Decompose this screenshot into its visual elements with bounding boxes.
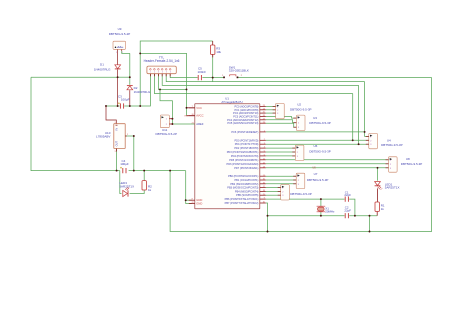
svg-text:15: 15	[263, 179, 265, 181]
svg-text:OUT: OUT	[115, 140, 119, 146]
wire TTL pin3 VCC line	[158, 74, 186, 90]
svg-text:IN: IN	[115, 128, 119, 131]
svg-text:DBT50G-9.5-3P: DBT50G-9.5-3P	[290, 192, 312, 196]
svg-text:28: 28	[263, 122, 265, 124]
wire U10 output	[116, 149, 118, 171]
wire U9 pin1 to D1	[117, 49, 119, 64]
svg-text:3: 3	[158, 72, 159, 74]
svg-text:U8: U8	[406, 157, 410, 161]
wire PD2 to U6	[266, 147, 296, 149]
wire VCC drop	[186, 89, 188, 115]
wire D1 row to D2 riser	[118, 76, 130, 78]
svg-text:U3: U3	[313, 116, 317, 120]
wire left frame vertical	[31, 77, 112, 170]
IC U1 left-side pins	[184, 106, 204, 206]
svg-text:DBT50G-9.5-3P: DBT50G-9.5-3P	[401, 162, 423, 166]
svg-text:26: 26	[263, 115, 265, 117]
wire PC2 to U2	[266, 112, 276, 114]
LED LED3 5AR25T1X	[123, 187, 129, 197]
wire PB4 to U5	[266, 190, 281, 192]
svg-text:DBT50G-9.5-3P: DBT50G-9.5-3P	[309, 149, 331, 153]
switch SW1 320-02E11BLK	[222, 75, 243, 78]
wire PC4 to U3	[266, 120, 297, 123]
svg-text:17: 17	[263, 186, 265, 188]
svg-text:PB5 (SCK/PCINT5): PB5 (SCK/PCINT5)	[236, 193, 258, 197]
svg-text:19: 19	[263, 194, 265, 196]
diode D1 1N4007RLG	[115, 65, 121, 69]
svg-text:DBT50G-9.5-3P: DBT50G-9.5-3P	[309, 121, 331, 125]
svg-text:5AR25T1X: 5AR25T1X	[385, 186, 400, 190]
wire PD0 row	[266, 139, 369, 141]
wire VCC pin	[187, 107, 195, 109]
connector U5 DBT50G-9.5-3P	[278, 185, 290, 200]
svg-text:1k: 1k	[381, 207, 385, 211]
wire R2 top	[143, 171, 145, 181]
svg-text:PD7 (PCINT23/AIN1): PD7 (PCINT23/AIN1)	[234, 166, 258, 170]
svg-text:6: 6	[264, 155, 265, 157]
svg-text:PB0 (PCINT0/CLKO/ICP1): PB0 (PCINT0/CLKO/ICP1)	[228, 174, 258, 178]
wire D2 riser	[129, 53, 131, 84]
svg-text:8: 8	[192, 199, 193, 201]
svg-text:23: 23	[263, 105, 265, 107]
svg-text:100µF: 100µF	[121, 98, 130, 102]
svg-text:PB6 (PCINT6/XTAL1/TOSC1): PB6 (PCINT6/XTAL1/TOSC1)	[225, 197, 259, 201]
svg-text:16: 16	[263, 182, 265, 184]
resistor R2 1k	[142, 181, 146, 190]
svg-text:U9: U9	[118, 27, 122, 31]
svg-text:20MHz: 20MHz	[325, 210, 335, 214]
svg-text:PC4 (ADC4/SDA/PCINT12): PC4 (ADC4/SDA/PCINT12)	[227, 118, 258, 122]
wire PD1 vertical	[358, 85, 360, 144]
connector U7 DBT50G-9.5-3P	[293, 173, 305, 188]
svg-text:2: 2	[154, 72, 155, 74]
wire PC0 to U2	[266, 105, 276, 107]
svg-text:4: 4	[162, 72, 163, 74]
connector U11 DBT50G-9.5-2P	[160, 115, 172, 128]
svg-text:PB4 (MISO/PCINT4): PB4 (MISO/PCINT4)	[235, 189, 259, 193]
svg-text:2: 2	[241, 75, 243, 77]
svg-text:DBT50G-9.5-2P: DBT50G-9.5-2P	[155, 132, 177, 136]
svg-text:PB2 (SS/OC1B/PCINT2): PB2 (SS/OC1B/PCINT2)	[230, 182, 258, 186]
svg-text:D1: D1	[100, 62, 104, 66]
svg-text:U6: U6	[313, 144, 317, 148]
svg-text:ATmega328-PU: ATmega328-PU	[221, 100, 242, 104]
wire VCC top line	[140, 41, 213, 106]
svg-text:1k: 1k	[148, 188, 152, 192]
svg-text:100nF: 100nF	[198, 70, 207, 74]
svg-text:PC6 (PCINT14/RESET): PC6 (PCINT14/RESET)	[231, 130, 258, 134]
svg-text:14: 14	[263, 175, 265, 177]
resistor R1 1k	[375, 202, 379, 211]
svg-text:1: 1	[115, 122, 116, 124]
wire C3 line right	[124, 74, 150, 106]
wire PC3 to U3	[266, 117, 297, 119]
svg-text:6: 6	[170, 72, 171, 74]
connector U3 DBT50G-9.5-3P	[293, 115, 305, 130]
svg-text:PB3 (MOSI/OC2A/PCINT3): PB3 (MOSI/OC2A/PCINT3)	[227, 186, 258, 190]
svg-text:PC2 (ADC2/PCINT10): PC2 (ADC2/PCINT10)	[233, 111, 258, 115]
svg-text:U5: U5	[312, 166, 316, 170]
IC U1 right-side pins	[225, 104, 266, 205]
svg-text:Header-Female-2.54_1x6: Header-Female-2.54_1x6	[144, 59, 180, 63]
wire TTL pin6 DTR line	[170, 74, 197, 78]
connector U6 DBT50G-9.5-3P	[292, 145, 304, 160]
wire U9 pin2	[121, 49, 123, 51]
wire C1 right drop	[349, 199, 355, 216]
wire TTL pin2 line	[154, 74, 352, 94]
wire PB1 to U7	[266, 179, 296, 181]
wire C4 right rail	[129, 170, 186, 172]
svg-text:PD1 (PCINT17/TXD): PD1 (PCINT17/TXD)	[235, 142, 259, 146]
svg-text:10: 10	[263, 202, 265, 204]
svg-text:PC0 (ADC0/PCINT8): PC0 (ADC0/PCINT8)	[234, 104, 258, 108]
wire PC5 to U3	[266, 123, 297, 127]
LED LED1 5AR25T1X	[375, 182, 383, 190]
svg-text:L7805ABV: L7805ABV	[96, 134, 110, 138]
svg-text:20: 20	[192, 114, 194, 116]
svg-text:2: 2	[264, 139, 265, 141]
svg-text:1: 1	[116, 52, 117, 54]
wire PD5 to U8	[266, 159, 389, 161]
svg-text:PB7 (PCINT7/XTAL2/TOSC2): PB7 (PCINT7/XTAL2/TOSC2)	[225, 201, 259, 205]
wire bottom ground rail	[170, 78, 431, 232]
capacitor C5 100nF	[198, 75, 201, 80]
wire PB5 to U5	[266, 194, 281, 196]
svg-text:U7: U7	[314, 172, 318, 176]
wire LED3 to R2	[130, 190, 145, 194]
svg-text:GND: GND	[196, 202, 202, 206]
capacitor C1 22pF	[345, 197, 348, 202]
svg-text:1: 1	[150, 72, 151, 74]
svg-text:7: 7	[192, 106, 193, 108]
svg-text:11: 11	[263, 158, 265, 160]
capacitor C4 100uF	[120, 167, 126, 173]
wire PC1 to U2	[266, 109, 276, 111]
svg-text:VCC: VCC	[196, 106, 202, 110]
svg-text:1N4007RLG: 1N4007RLG	[134, 90, 151, 94]
wire AVCC pin	[187, 115, 195, 117]
svg-text:PD2 (PCINT18/INT0): PD2 (PCINT18/INT0)	[234, 146, 258, 150]
connector U8 DBT50G-9.5-3P	[386, 157, 398, 172]
svg-text:21: 21	[192, 122, 194, 124]
wire R1 bottom	[376, 212, 378, 216]
svg-text:PD5 (PCINT21/OC0B/T1): PD5 (PCINT21/OC0B/T1)	[229, 158, 258, 162]
wire U11 feed	[160, 89, 172, 124]
wire U10 input jog	[106, 106, 116, 124]
wire left frame	[31, 76, 118, 78]
wire PD6 to U8	[266, 163, 389, 165]
svg-text:9: 9	[264, 198, 265, 200]
svg-text:24: 24	[263, 108, 265, 110]
wire XTAL1 line	[266, 198, 345, 200]
svg-text:5: 5	[166, 72, 167, 74]
svg-text:1N4007RLG: 1N4007RLG	[94, 67, 111, 71]
svg-text:2: 2	[122, 52, 123, 54]
svg-text:22pF: 22pF	[344, 208, 351, 212]
wire C2 right to R1	[349, 215, 377, 217]
resistor R3 10k	[211, 41, 215, 57]
wire crystal riser top	[320, 199, 322, 206]
wire GND drop right	[369, 216, 371, 232]
svg-text:10k: 10k	[216, 50, 221, 54]
connector U2 DBT50G-9.5-3P	[273, 103, 285, 118]
wire GND pin 8	[186, 199, 192, 201]
svg-text:4: 4	[264, 147, 265, 149]
wire PD0 vertical	[352, 94, 354, 141]
wire XTAL2 line	[268, 215, 345, 217]
svg-text:PC5 (ADC5/SCL/PCINT13): PC5 (ADC5/SCL/PCINT13)	[227, 121, 258, 125]
wire XTAL2 drop	[266, 203, 268, 232]
wire crystal riser bottom	[320, 212, 322, 216]
svg-text:320-02E11BLK: 320-02E11BLK	[229, 69, 249, 73]
svg-text:PD4 (PCINT20/XCK/T0): PD4 (PCINT20/XCK/T0)	[231, 154, 259, 158]
svg-text:DBT50G-9.5-3P: DBT50G-9.5-3P	[381, 143, 403, 147]
svg-text:22pF: 22pF	[344, 193, 351, 197]
svg-text:VCC: VCC	[184, 116, 189, 118]
wire D1 to C3 line	[117, 70, 119, 107]
connector TTL Header-Female-2.54_1x6	[147, 66, 176, 76]
svg-text:25: 25	[263, 112, 265, 114]
svg-text:U2: U2	[297, 103, 301, 107]
svg-text:5: 5	[264, 151, 265, 153]
svg-text:DBT50G-9.5-2P: DBT50G-9.5-2P	[109, 32, 131, 36]
crystal X1 20MHz	[317, 206, 326, 212]
wire LED3 branch	[120, 171, 122, 194]
svg-text:PD3 (PCINT19/OC2B/INT1): PD3 (PCINT19/OC2B/INT1)	[227, 150, 259, 154]
svg-text:PB1 (OC1A/PCINT1): PB1 (OC1A/PCINT1)	[234, 178, 258, 182]
wire reset node	[202, 77, 223, 79]
wire R3 bottom	[212, 54, 214, 77]
wire PB3 to U5	[266, 187, 281, 189]
wire PD7 to U8	[266, 167, 389, 169]
wire PB0 to U7	[266, 175, 296, 177]
wire U10 ground	[125, 136, 134, 171]
wire LED1 to R1	[377, 188, 379, 202]
svg-text:3: 3	[115, 151, 116, 153]
svg-text:5AR25T1X: 5AR25T1X	[119, 184, 134, 188]
capacitor C3 100uF	[118, 102, 124, 108]
wire PC6 reset row	[266, 131, 365, 133]
svg-text:U4: U4	[387, 139, 391, 143]
svg-text:PD0 (PCINT16/RXD): PD0 (PCINT16/RXD)	[234, 138, 258, 142]
svg-text:18: 18	[263, 190, 265, 192]
wire RESET vertical to U4 pin1	[365, 82, 369, 137]
svg-text:DBT50G-9.5-3P: DBT50G-9.5-3P	[307, 178, 329, 182]
wire PB2 to U7	[266, 183, 296, 185]
wire TTL pin5 line	[166, 74, 364, 82]
svg-text:3: 3	[264, 143, 265, 145]
svg-text:27: 27	[263, 118, 265, 120]
wire 5V rail	[112, 170, 120, 172]
capacitor C2 22pF	[345, 213, 348, 218]
svg-text:1: 1	[264, 131, 265, 133]
connector U4 DBT50G-9.5-3P	[366, 133, 378, 148]
wire PD4 to U6	[266, 155, 296, 157]
wire VCC distribution	[140, 53, 186, 89]
svg-text:AVCC: AVCC	[196, 114, 203, 118]
svg-text:AREF: AREF	[196, 122, 204, 126]
wire C3 line left	[106, 105, 120, 107]
IC U1 ATmega328-PU	[195, 104, 260, 209]
regulator U10 L7805ABV	[114, 122, 128, 153]
svg-text:100µF: 100µF	[120, 162, 129, 166]
svg-text:PD6 (PCINT22/OC0A/AIN0): PD6 (PCINT22/OC0A/AIN0)	[227, 162, 259, 166]
svg-text:12: 12	[263, 162, 265, 164]
svg-text:2: 2	[127, 134, 128, 136]
wire GND drop to IC GND pins	[186, 171, 192, 204]
svg-text:22: 22	[192, 202, 194, 204]
wire PD1 row	[266, 143, 369, 145]
wire reset drop	[212, 78, 214, 82]
wire AREF wire	[172, 123, 194, 125]
wire PD3 to U6	[266, 151, 296, 153]
wire TTL pin4 line	[162, 74, 358, 86]
wire U8 pin3 LED branch	[377, 168, 379, 181]
wire D2 to C3 line	[129, 90, 131, 106]
diode D2 1N4007RLG	[127, 86, 133, 90]
connector U9 DBT50G-9.5-2P	[113, 41, 126, 54]
svg-text:DBT50G-9.5-3P: DBT50G-9.5-3P	[290, 108, 312, 112]
svg-text:13: 13	[263, 166, 265, 168]
